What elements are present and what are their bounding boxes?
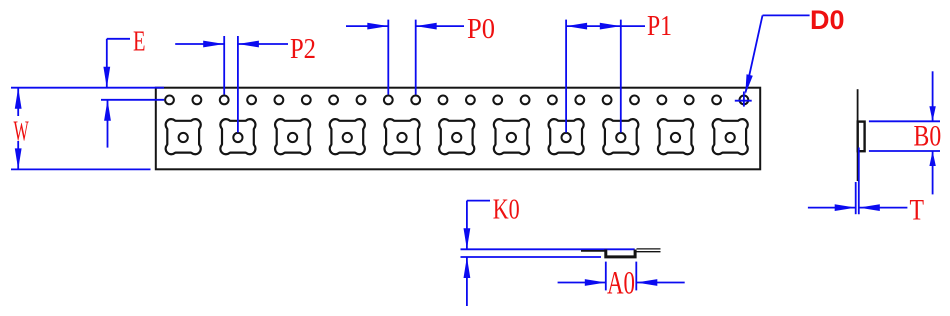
component pocket 1 bbox=[166, 119, 201, 154]
svg-text:W: W bbox=[14, 116, 30, 148]
component pocket 7 bbox=[494, 119, 529, 154]
sprocket hole 7 bbox=[329, 96, 338, 105]
svg-text:T: T bbox=[910, 194, 925, 227]
svg-text:K0: K0 bbox=[493, 195, 520, 226]
side view: tape edge line bbox=[857, 89, 859, 181]
dimension B0 extension lines bbox=[869, 121, 940, 151]
sprocket hole 3 bbox=[220, 96, 229, 105]
dimension T extension lines bbox=[856, 148, 859, 215]
component pocket 10 bbox=[658, 119, 693, 154]
sprocket hole 21 bbox=[712, 96, 721, 105]
section view: tape bottom surface bbox=[461, 256, 602, 258]
svg-text:P1: P1 bbox=[647, 11, 672, 42]
sprocket hole 1 bbox=[165, 96, 174, 105]
sprocket hole 10 bbox=[411, 96, 420, 105]
section view: pocket cavity (U shape) bbox=[606, 250, 635, 257]
sprocket hole 17 bbox=[603, 96, 612, 105]
sprocket hole 12 bbox=[466, 96, 475, 105]
component pocket 5 bbox=[384, 119, 419, 154]
sprocket hole 22 bbox=[740, 96, 749, 105]
sprocket hole 13 bbox=[493, 96, 502, 105]
dimension A0 arrows bbox=[558, 279, 685, 286]
dimension T arrows bbox=[808, 204, 908, 211]
sprocket hole 18 bbox=[630, 96, 639, 105]
section view: component lead-in line bbox=[581, 250, 605, 252]
section view: cover tape double line bbox=[637, 249, 661, 252]
component pocket 9 bbox=[603, 119, 638, 154]
dimension P1 extension lines bbox=[566, 20, 621, 133]
dimension W arrows bbox=[15, 88, 22, 170]
sprocket hole 16 bbox=[575, 96, 584, 105]
dimension P2 arrows bbox=[175, 41, 288, 48]
sprocket hole 2 bbox=[193, 96, 202, 105]
component pocket 3 bbox=[275, 119, 310, 154]
section view: tape top surface bbox=[461, 248, 635, 250]
component pocket 2 bbox=[220, 119, 255, 154]
sprocket hole 19 bbox=[658, 96, 667, 105]
dimension W extension lines bbox=[11, 88, 164, 170]
sprocket hole 5 bbox=[275, 96, 284, 105]
dimension P0 arrows bbox=[346, 23, 464, 30]
svg-text:E: E bbox=[133, 26, 146, 58]
sprocket hole centre mark (crosshair) bbox=[735, 92, 752, 107]
sprocket hole 4 bbox=[247, 96, 256, 105]
component pocket 4 bbox=[330, 119, 365, 154]
svg-text:P2: P2 bbox=[290, 33, 316, 65]
dimension D0 leader arrow bbox=[745, 15, 809, 94]
sprocket hole 11 bbox=[439, 96, 448, 105]
dimension B0 arrows bbox=[929, 71, 935, 194]
dimension P1 arrows bbox=[566, 23, 645, 30]
sprocket hole 8 bbox=[357, 96, 366, 105]
sprocket hole 14 bbox=[521, 96, 530, 105]
dimension K0 leader and arrows bbox=[464, 201, 491, 306]
side view: component pocket bump bbox=[858, 122, 865, 152]
dimension E leader and arrows bbox=[101, 39, 164, 148]
sprocket hole 15 bbox=[548, 96, 557, 105]
sprocket hole 9 bbox=[384, 96, 393, 105]
sprocket hole 6 bbox=[302, 96, 311, 105]
dimension A0 extension lines bbox=[606, 262, 637, 291]
component pocket 8 bbox=[549, 119, 584, 154]
sprocket hole 20 bbox=[685, 96, 694, 105]
svg-text:B0: B0 bbox=[914, 120, 942, 153]
svg-text:A0: A0 bbox=[607, 265, 635, 301]
component pocket 6 bbox=[439, 119, 474, 154]
svg-text:P0: P0 bbox=[467, 14, 495, 45]
dimension P2 extension lines bbox=[224, 36, 238, 133]
svg-text:D0: D0 bbox=[810, 5, 845, 35]
carrier tape body outline bbox=[156, 88, 760, 170]
component pocket 11 bbox=[713, 119, 748, 154]
dimension P0 extension lines bbox=[388, 20, 415, 95]
